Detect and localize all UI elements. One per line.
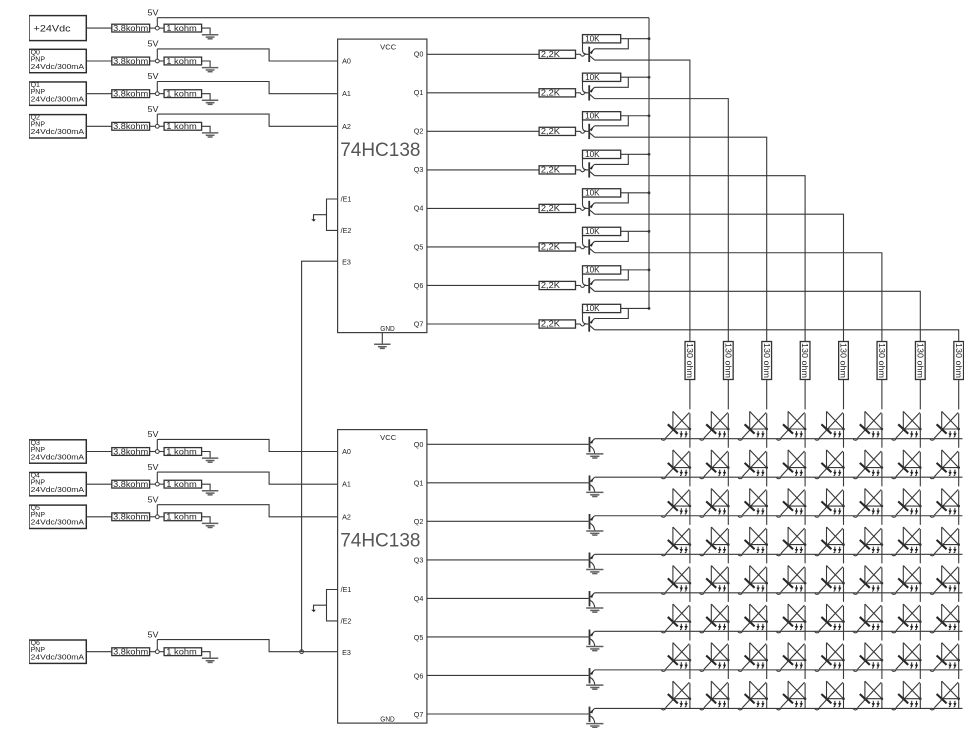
wire column 6 bbox=[919, 380, 921, 709]
wire bbox=[576, 284, 581, 286]
svg-text:Q7: Q7 bbox=[414, 319, 424, 328]
wire emitter bbox=[595, 231, 629, 241]
LED D66 bbox=[892, 643, 922, 672]
LED D02 bbox=[738, 411, 768, 440]
svg-text:E3: E3 bbox=[342, 648, 351, 657]
svg-text:130 ohm: 130 ohm bbox=[762, 343, 771, 378]
resistor 10K (col 1) bbox=[583, 73, 621, 82]
svg-text:A2: A2 bbox=[342, 122, 351, 131]
wire bbox=[576, 246, 581, 248]
svg-text:PNP: PNP bbox=[31, 512, 46, 519]
svg-text:5V: 5V bbox=[148, 105, 160, 114]
svg-text:Q3: Q3 bbox=[31, 440, 40, 447]
svg-text:24Vdc/300mA: 24Vdc/300mA bbox=[31, 520, 85, 527]
resistor 3.8kohm bbox=[112, 122, 150, 131]
wire bbox=[156, 640, 158, 650]
wire bbox=[150, 451, 156, 453]
node junction bbox=[155, 450, 159, 454]
svg-text:130 ohm: 130 ohm bbox=[954, 343, 963, 378]
wire collector to column 2 bbox=[595, 137, 767, 341]
wire bbox=[86, 27, 112, 29]
LED D06 bbox=[892, 411, 922, 440]
wire bbox=[86, 93, 112, 95]
wire bbox=[202, 452, 211, 459]
svg-text:PNP: PNP bbox=[31, 647, 46, 654]
node junction bbox=[155, 92, 159, 96]
wire bbox=[159, 93, 164, 95]
svg-text:24Vdc/300mA: 24Vdc/300mA bbox=[31, 97, 85, 104]
transistor PNP row 2 bbox=[590, 514, 595, 531]
wire bbox=[584, 169, 588, 171]
node base junction bbox=[581, 54, 585, 56]
wire bbox=[159, 483, 164, 485]
LED D23 bbox=[777, 488, 807, 517]
svg-text:10K: 10K bbox=[585, 265, 600, 274]
resistor 3.8kohm bbox=[112, 24, 150, 33]
svg-text:130 ohm: 130 ohm bbox=[915, 343, 924, 378]
svg-text:Q2: Q2 bbox=[414, 517, 424, 526]
node junction bbox=[155, 482, 159, 486]
LED D56 bbox=[892, 604, 922, 633]
LED D73 bbox=[777, 681, 807, 710]
wire bbox=[202, 484, 211, 491]
transistor PNP col 5 bbox=[589, 239, 594, 254]
wire emitter bbox=[595, 154, 629, 164]
svg-text:2,2K: 2,2K bbox=[541, 243, 561, 252]
wire LED row 0 bbox=[595, 438, 963, 440]
resistor 1 kohm bbox=[164, 648, 202, 657]
LED D20 bbox=[661, 488, 691, 517]
wire bbox=[156, 439, 158, 449]
svg-text:Q6: Q6 bbox=[31, 640, 40, 647]
ground bbox=[586, 492, 603, 496]
svg-text:10K: 10K bbox=[585, 34, 600, 43]
svg-text:Q4: Q4 bbox=[414, 594, 424, 603]
wire bbox=[156, 18, 158, 27]
wire bbox=[150, 60, 156, 62]
wire bbox=[584, 92, 588, 94]
svg-text:2,2K: 2,2K bbox=[541, 281, 561, 290]
LED D05 bbox=[853, 411, 883, 440]
node junction E3 bbox=[300, 650, 304, 654]
svg-text:10K: 10K bbox=[585, 73, 600, 82]
wire LED row 2 bbox=[595, 515, 963, 517]
LED D03 bbox=[777, 411, 807, 440]
LED D25 bbox=[853, 488, 883, 517]
resistor 2,2K (col 1) bbox=[539, 89, 575, 98]
wire bbox=[150, 27, 156, 29]
svg-text:Q0: Q0 bbox=[414, 440, 424, 449]
LED D70 bbox=[661, 681, 691, 710]
wire bbox=[202, 126, 211, 133]
node junction bbox=[155, 650, 159, 654]
LED D10 bbox=[661, 450, 691, 479]
LED D57 bbox=[930, 604, 960, 633]
LED D41 bbox=[700, 566, 730, 595]
wire bbox=[156, 49, 158, 59]
LED D65 bbox=[853, 643, 883, 672]
wire bbox=[202, 517, 211, 524]
resistor 3.8kohm bbox=[112, 648, 150, 657]
node base junction bbox=[581, 93, 585, 95]
svg-text:PNP: PNP bbox=[31, 122, 46, 129]
LED D36 bbox=[892, 527, 922, 556]
resistor 1 kohm bbox=[164, 89, 202, 98]
ground bbox=[586, 608, 603, 612]
wire 10K right to rail bbox=[621, 307, 649, 309]
wire 10K left hook bbox=[583, 313, 587, 324]
wire Q5 output U1 bbox=[427, 246, 539, 248]
wire bbox=[86, 483, 112, 485]
wire column 2 bbox=[766, 380, 768, 709]
svg-text:5V: 5V bbox=[148, 8, 160, 17]
transistor PNP row 1 bbox=[590, 475, 595, 492]
LED D44 bbox=[815, 566, 845, 595]
LED D17 bbox=[930, 450, 960, 479]
transistor PNP row 6 bbox=[590, 668, 595, 685]
svg-text:A1: A1 bbox=[342, 89, 351, 98]
LED D22 bbox=[738, 488, 768, 517]
wire bbox=[202, 94, 211, 101]
wire 10K left hook bbox=[583, 274, 587, 285]
wire emitter bbox=[595, 270, 629, 280]
wire bbox=[381, 333, 383, 345]
wire collector to column 6 bbox=[595, 291, 921, 341]
resistor 1 kohm bbox=[164, 480, 202, 489]
input block Q0 bbox=[29, 49, 86, 72]
resistor 10K (col 2) bbox=[583, 111, 621, 120]
wire column 4 bbox=[843, 380, 845, 709]
LED D61 bbox=[700, 643, 730, 672]
svg-text:3.8kohm: 3.8kohm bbox=[113, 24, 148, 33]
svg-text:130 ohm: 130 ohm bbox=[723, 343, 732, 378]
svg-text:74HC138: 74HC138 bbox=[340, 140, 420, 161]
svg-text:24Vdc/300mA: 24Vdc/300mA bbox=[31, 655, 85, 662]
svg-text:130 ohm: 130 ohm bbox=[685, 343, 694, 378]
transistor PNP col 7 bbox=[589, 316, 594, 331]
svg-text:2,2K: 2,2K bbox=[541, 50, 561, 59]
svg-text:Q4: Q4 bbox=[31, 473, 40, 480]
svg-text:Q2: Q2 bbox=[31, 115, 40, 122]
input block Q3 bbox=[29, 440, 86, 463]
wire Q4 output U2 bbox=[427, 597, 589, 599]
wire emitter bbox=[595, 193, 629, 203]
svg-text:2,2K: 2,2K bbox=[541, 320, 561, 329]
wire bbox=[202, 61, 211, 68]
svg-text:Q5: Q5 bbox=[414, 633, 424, 642]
wire bbox=[159, 27, 164, 29]
transistor PNP col 2 bbox=[589, 124, 594, 139]
svg-text:130 ohm: 130 ohm bbox=[877, 343, 886, 378]
wire to pin E3 bbox=[157, 640, 337, 652]
wire emitter bbox=[595, 77, 629, 87]
resistor 130 ohm (col 3) bbox=[800, 342, 810, 380]
svg-text:A1: A1 bbox=[342, 480, 351, 489]
wire /E1 /E2 tie bbox=[327, 199, 338, 230]
input block Q1 bbox=[29, 82, 86, 105]
wire E3 net bbox=[302, 261, 338, 652]
wire Q7 output U1 bbox=[427, 323, 539, 325]
LED D16 bbox=[892, 450, 922, 479]
svg-text:Q5: Q5 bbox=[31, 505, 40, 512]
ground arrow bbox=[311, 219, 316, 221]
resistor 130 ohm (col 2) bbox=[762, 342, 772, 380]
wire Q7 output U2 bbox=[427, 713, 589, 715]
wire Q0 output U1 bbox=[427, 53, 539, 55]
resistor 130 ohm (col 6) bbox=[915, 342, 925, 380]
svg-text:3.8kohm: 3.8kohm bbox=[113, 513, 148, 522]
svg-text:3.8kohm: 3.8kohm bbox=[113, 57, 148, 66]
wire 5V rail vertical bbox=[648, 18, 650, 309]
LED D72 bbox=[738, 681, 768, 710]
ground bbox=[586, 647, 603, 651]
resistor 1 kohm bbox=[164, 513, 202, 522]
wire bbox=[202, 28, 211, 35]
wire bbox=[584, 246, 588, 248]
node junction bbox=[155, 515, 159, 519]
wire column 1 bbox=[727, 380, 729, 709]
svg-text:1 kohm: 1 kohm bbox=[166, 57, 197, 66]
junction rail bbox=[648, 230, 651, 233]
LED D14 bbox=[815, 450, 845, 479]
transistor PNP row 3 bbox=[590, 552, 595, 569]
LED D42 bbox=[738, 566, 768, 595]
ground bbox=[202, 491, 218, 495]
transistor PNP row 0 bbox=[590, 437, 595, 454]
wire 10K left hook bbox=[583, 197, 587, 208]
svg-text:Q1: Q1 bbox=[31, 82, 40, 89]
ground bbox=[202, 100, 218, 104]
svg-text:Q0: Q0 bbox=[31, 49, 40, 56]
resistor 10K (col 5) bbox=[583, 227, 621, 236]
wire Q3 output U1 bbox=[427, 169, 539, 171]
wire bbox=[156, 505, 158, 515]
wire bbox=[156, 472, 158, 482]
svg-text:/E2: /E2 bbox=[341, 616, 352, 625]
LED D50 bbox=[661, 604, 691, 633]
junction rail bbox=[648, 153, 651, 156]
svg-text:Q3: Q3 bbox=[414, 556, 424, 565]
wire Q0 output U2 bbox=[427, 443, 589, 445]
LED D53 bbox=[777, 604, 807, 633]
svg-text:Q0: Q0 bbox=[414, 50, 424, 59]
wire 10K left hook bbox=[583, 81, 587, 92]
wire Q6 output U2 bbox=[427, 674, 589, 676]
ground bbox=[202, 658, 218, 662]
wire 10K right to rail bbox=[621, 115, 649, 117]
wire bbox=[314, 605, 327, 610]
svg-text:24Vdc/300mA: 24Vdc/300mA bbox=[31, 487, 85, 494]
svg-text:3.8kohm: 3.8kohm bbox=[113, 480, 148, 489]
resistor 3.8kohm bbox=[112, 513, 150, 522]
LED D13 bbox=[777, 450, 807, 479]
input block Q4 bbox=[29, 472, 86, 495]
wire bbox=[576, 130, 581, 132]
wire 5V supply line bbox=[157, 17, 649, 19]
input block Q6 bbox=[29, 640, 86, 663]
transistor PNP col 1 bbox=[589, 85, 594, 100]
svg-text:Q7: Q7 bbox=[414, 710, 424, 719]
wire collector to column 3 bbox=[595, 176, 806, 342]
svg-text:2,2K: 2,2K bbox=[541, 127, 561, 136]
wire column 3 bbox=[804, 380, 806, 709]
svg-text:10K: 10K bbox=[585, 227, 600, 236]
transistor PNP col 3 bbox=[589, 162, 594, 177]
LED D33 bbox=[777, 527, 807, 556]
ground bbox=[586, 685, 603, 689]
transistor PNP row 4 bbox=[590, 591, 595, 608]
wire emitter bbox=[595, 39, 629, 49]
resistor 2,2K (col 0) bbox=[539, 50, 575, 59]
resistor 10K (col 3) bbox=[583, 150, 621, 159]
node junction bbox=[155, 59, 159, 63]
LED D52 bbox=[738, 604, 768, 633]
resistor 10K (col 0) bbox=[583, 34, 621, 43]
resistor 2,2K (col 5) bbox=[539, 243, 575, 252]
wire bbox=[150, 125, 156, 127]
wire LED row 6 bbox=[595, 669, 963, 671]
wire bbox=[159, 60, 164, 62]
svg-text:1 kohm: 1 kohm bbox=[166, 513, 197, 522]
LED D71 bbox=[700, 681, 730, 710]
wire /E1 /E2 tie bbox=[327, 590, 338, 621]
LED D54 bbox=[815, 604, 845, 633]
svg-text:A0: A0 bbox=[342, 57, 351, 66]
LED D35 bbox=[853, 527, 883, 556]
wire bbox=[86, 451, 112, 453]
wire 10K right to rail bbox=[621, 153, 649, 155]
wire emitter bbox=[595, 308, 629, 318]
svg-text:A0: A0 bbox=[342, 447, 351, 456]
wire bbox=[314, 215, 327, 220]
LED D76 bbox=[892, 681, 922, 710]
svg-text:24Vdc/300mA: 24Vdc/300mA bbox=[31, 64, 85, 71]
svg-text:PNP: PNP bbox=[31, 89, 46, 96]
LED D00 bbox=[661, 411, 691, 440]
transistor PNP row 5 bbox=[590, 630, 595, 647]
svg-text:PNP: PNP bbox=[31, 480, 46, 487]
svg-text:PNP: PNP bbox=[31, 447, 46, 454]
svg-text:3.8kohm: 3.8kohm bbox=[113, 648, 148, 657]
wire bbox=[150, 651, 156, 653]
wire bbox=[150, 516, 156, 518]
node junction bbox=[155, 124, 159, 128]
wire column 0 bbox=[689, 380, 691, 709]
svg-text:/E1: /E1 bbox=[341, 194, 352, 203]
wire bbox=[150, 93, 156, 95]
svg-text:130 ohm: 130 ohm bbox=[839, 343, 848, 378]
wire bbox=[159, 125, 164, 127]
resistor 3.8kohm bbox=[112, 57, 150, 66]
transistor PNP col 6 bbox=[589, 278, 594, 293]
wire LED row 3 bbox=[595, 553, 963, 555]
svg-text:VCC: VCC bbox=[380, 433, 396, 442]
LED D01 bbox=[700, 411, 730, 440]
ground bbox=[374, 344, 390, 348]
node base junction bbox=[581, 247, 585, 249]
wire to pin bbox=[157, 505, 337, 517]
LED D43 bbox=[777, 566, 807, 595]
resistor 2,2K (col 2) bbox=[539, 127, 575, 136]
ground bbox=[586, 454, 603, 458]
wire Q3 output U2 bbox=[427, 559, 589, 561]
LED D77 bbox=[930, 681, 960, 710]
wire bbox=[156, 114, 158, 124]
svg-text:VCC: VCC bbox=[380, 43, 396, 52]
wire Q1 output U1 bbox=[427, 92, 539, 94]
svg-text:Q6: Q6 bbox=[414, 281, 424, 290]
wire bbox=[576, 53, 581, 55]
LED D47 bbox=[930, 566, 960, 595]
wire bbox=[86, 651, 112, 653]
ground bbox=[586, 569, 603, 573]
LED D74 bbox=[815, 681, 845, 710]
junction rail bbox=[648, 191, 651, 194]
node junction bbox=[155, 26, 159, 30]
resistor 10K (col 6) bbox=[583, 265, 621, 274]
transistor PNP col 0 bbox=[589, 47, 594, 62]
LED D27 bbox=[930, 488, 960, 517]
svg-text:Q5: Q5 bbox=[414, 242, 424, 251]
wire bbox=[576, 207, 581, 209]
ground bbox=[586, 531, 603, 535]
junction rail bbox=[648, 307, 651, 310]
ground bbox=[202, 523, 218, 527]
svg-text:5V: 5V bbox=[148, 630, 160, 639]
resistor 130 ohm (col 4) bbox=[839, 342, 849, 380]
svg-text:130 ohm: 130 ohm bbox=[800, 343, 809, 378]
wire 10K left hook bbox=[583, 120, 587, 131]
wire to pin bbox=[157, 439, 337, 451]
wire 10K left hook bbox=[583, 43, 587, 54]
svg-text:10K: 10K bbox=[585, 111, 600, 120]
LED D21 bbox=[700, 488, 730, 517]
input block Q5 bbox=[29, 505, 86, 528]
svg-text:24Vdc/300mA: 24Vdc/300mA bbox=[31, 454, 85, 461]
wire collector to column 1 bbox=[595, 99, 729, 342]
resistor 1 kohm bbox=[164, 447, 202, 456]
resistor 3.8kohm bbox=[112, 89, 150, 98]
svg-text:1 kohm: 1 kohm bbox=[166, 122, 197, 131]
op-amp U2 74HC138 bbox=[338, 430, 427, 724]
svg-text:Q2: Q2 bbox=[414, 127, 424, 136]
resistor 130 ohm (col 5) bbox=[877, 342, 887, 380]
resistor 2,2K (col 4) bbox=[539, 204, 575, 213]
LED D45 bbox=[853, 566, 883, 595]
wire to pin bbox=[157, 472, 337, 484]
svg-text:3.8kohm: 3.8kohm bbox=[113, 122, 148, 131]
wire bbox=[159, 516, 164, 518]
wire 10K left hook bbox=[583, 158, 587, 169]
transistor PNP row 7 bbox=[590, 707, 595, 724]
node base junction bbox=[581, 285, 585, 287]
ground bbox=[586, 724, 603, 728]
LED D07 bbox=[930, 411, 960, 440]
wire to pin bbox=[157, 82, 337, 94]
wire bbox=[156, 82, 158, 92]
wire Q1 output U2 bbox=[427, 482, 589, 484]
resistor 10K (col 4) bbox=[583, 188, 621, 197]
wire emitter bbox=[595, 116, 629, 126]
wire Q2 output U1 bbox=[427, 130, 539, 132]
wire 10K right to rail bbox=[621, 230, 649, 232]
svg-text:5V: 5V bbox=[148, 40, 160, 49]
wire collector to column 4 bbox=[595, 214, 844, 341]
svg-text:1 kohm: 1 kohm bbox=[166, 480, 197, 489]
wire bbox=[159, 651, 164, 653]
svg-text:/E1: /E1 bbox=[341, 585, 352, 594]
svg-text:E3: E3 bbox=[342, 258, 351, 267]
